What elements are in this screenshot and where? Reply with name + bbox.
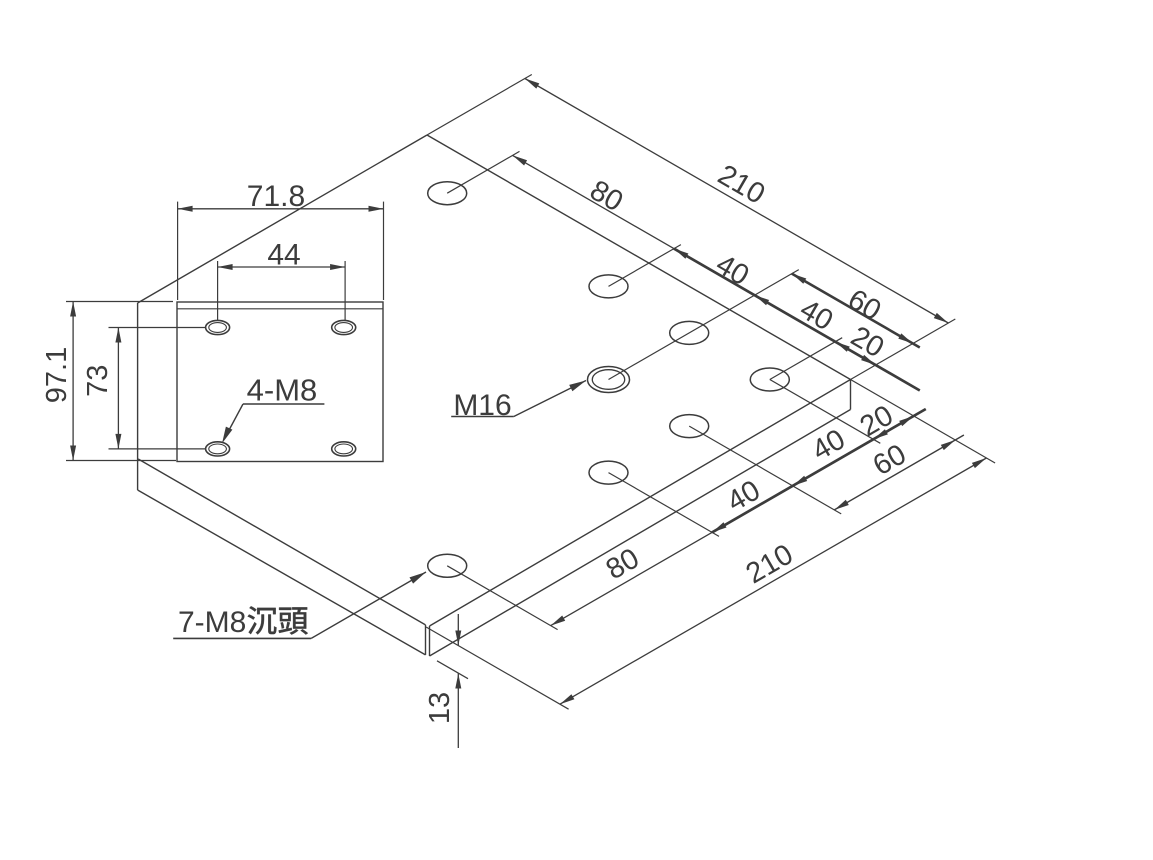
svg-text:97.1: 97.1 xyxy=(41,347,73,403)
svg-text:73: 73 xyxy=(82,365,114,397)
svg-text:44: 44 xyxy=(267,239,300,272)
svg-text:71.8: 71.8 xyxy=(247,180,305,213)
svg-text:7-M8: 7-M8 xyxy=(178,606,246,639)
svg-text:4-M8: 4-M8 xyxy=(247,373,318,408)
svg-text:M16: M16 xyxy=(453,389,511,422)
svg-text:13: 13 xyxy=(424,692,456,724)
